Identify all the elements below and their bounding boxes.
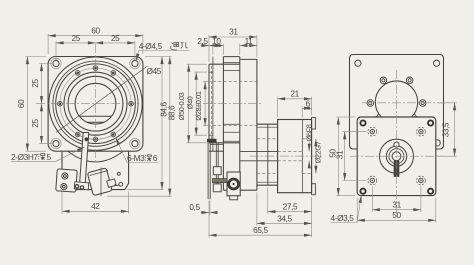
dim 60 left line: [26, 57, 28, 152]
svg-text:21: 21: [290, 89, 299, 99]
shaft ring: [386, 146, 406, 166]
sensor bracket edge-on bar: [208, 143, 210, 199]
dim 88.6 line: [169, 57, 171, 197]
adapter lip bottom: [257, 181, 278, 183]
motor plate: [357, 117, 436, 196]
spigot edge top: [209, 71, 213, 73]
dim 31 left extensions: [343, 132, 367, 181]
svg-text:Ø6F8: Ø6F8: [305, 124, 314, 141]
dim 50 bottom line: [357, 219, 436, 221]
sensor pcb bar hatched: [213, 179, 228, 183]
dim 50 bottom extensions: [357, 198, 436, 223]
gearbox flange plate rear: [350, 55, 444, 150]
dim 50 left extensions: [336, 117, 355, 196]
svg-text:88,6: 88,6: [166, 105, 176, 120]
svg-text:34,5: 34,5: [277, 213, 292, 223]
motor rear boss top: [312, 118, 316, 130]
body internal line a: [223, 61, 239, 63]
svg-text:31: 31: [229, 26, 238, 36]
hidden bore d28 top: [213, 81, 257, 83]
motor axis centerline: [250, 155, 322, 157]
adapter lip top: [257, 126, 278, 128]
dim d6F8 line: [308, 142, 310, 152]
hidden pilot adapter top: [257, 138, 278, 140]
dome screw ring upper-right: [406, 77, 413, 84]
dim 25 25 top extensions: [56, 41, 135, 60]
keyway slot: [394, 161, 399, 177]
leader 6-M3: [116, 138, 159, 163]
sensor connector stub: [107, 179, 116, 187]
dim 84.6 extensions: [127, 57, 172, 190]
adapter top edge: [257, 123, 278, 125]
circle d40: [64, 72, 127, 135]
corner hole top-left: [51, 58, 140, 149]
svg-text:2,5: 2,5: [197, 36, 208, 46]
wire end ring: [119, 182, 123, 186]
flange hole top-right: [434, 60, 440, 66]
lower housing left side wall: [62, 151, 66, 189]
dim 2,5 arrows outside: [201, 45, 209, 47]
svg-text:25: 25: [71, 33, 80, 43]
bearing box low: [223, 140, 239, 142]
svg-text:25: 25: [111, 33, 120, 43]
dim 25 top left line: [56, 42, 96, 44]
plate corner hole br: [428, 189, 433, 194]
dim 25 top right line: [96, 42, 135, 44]
dim 11 extension: [239, 44, 241, 55]
dim 25 left lower line: [41, 104, 43, 144]
vane section black cap: [207, 139, 217, 143]
spigot edge bottom: [209, 134, 213, 136]
dim 11 line: [240, 45, 257, 47]
housing casting sag arc: [68, 151, 123, 162]
flange hole top-left: [355, 60, 361, 66]
dim 42 line: [62, 210, 129, 212]
body bottom edge: [223, 189, 257, 191]
sensor bracket plate: [56, 169, 77, 192]
gear dome: [375, 81, 417, 117]
svg-text:50: 50: [392, 210, 401, 220]
dowel pin hole top: [93, 66, 98, 71]
flange lower inner line: [210, 144, 223, 146]
corner hole bottom-right: [132, 141, 138, 147]
dim 0,5 extensions: [208, 201, 211, 216]
dim d50 line: [188, 64, 190, 143]
cross screw bl: [368, 176, 377, 185]
lower housing right side wall: [125, 151, 129, 189]
svg-text:27,5: 27,5: [283, 202, 298, 212]
dim 34,5 extension: [257, 192, 312, 237]
bore lower chord: [87, 121, 104, 123]
hidden pilot bore verticals: [301, 139, 303, 174]
pin above shaft: [394, 142, 399, 147]
flange front face: [212, 57, 214, 152]
sensor fork lower block: [213, 184, 221, 192]
sensor vane arm: [80, 133, 89, 184]
lower housing bottom edge: [66, 189, 125, 191]
dome screw ring right: [419, 100, 426, 107]
sensor wire: [115, 184, 119, 187]
dim 25 left upper line: [41, 64, 43, 104]
sensor fork upper block: [213, 167, 221, 175]
dim 6 extension: [301, 106, 303, 117]
dim 2,5 extensions: [209, 35, 213, 62]
dim 10 extension: [222, 44, 224, 55]
svg-text:6-M3: 6-M3: [127, 153, 145, 163]
dim 33,5 extensions: [437, 103, 457, 156]
dim 31 bottom extensions: [372, 187, 421, 213]
motor shaft top edge: [240, 150, 278, 152]
dome screw ring upper-left: [380, 77, 387, 84]
small housing hole right: [117, 172, 120, 175]
svg-text:4-Ø3,5: 4-Ø3,5: [331, 213, 355, 223]
label 2-d3H7 depth 5: [11, 152, 52, 162]
svg-text:33,5: 33,5: [440, 122, 450, 137]
outer circle d59: [49, 57, 142, 150]
shaft boss d22: [380, 139, 414, 173]
svg-text:4-Ø4,5: 4-Ø4,5: [139, 41, 163, 51]
hidden pilot bore top: [302, 138, 311, 140]
dim 25 left extensions: [39, 64, 52, 144]
svg-text:2-Ø3H7: 2-Ø3H7: [11, 152, 38, 162]
corner hole top-right: [132, 60, 138, 66]
bearing box mid: [223, 131, 239, 133]
label 6-M3 depth 6: [127, 153, 158, 163]
vane arm pivot dot: [85, 137, 89, 141]
dim 50 left line: [337, 117, 339, 196]
dim 42 extensions: [62, 192, 129, 214]
rear view dim texts: [328, 122, 451, 220]
dim 34,5 line: [257, 222, 312, 224]
circle d50.6: [56, 64, 136, 144]
dim 6 line: [302, 107, 311, 109]
dowel pin hole bottom: [93, 137, 98, 142]
sensor body section: [227, 172, 240, 196]
body mid wall: [239, 57, 241, 191]
shaft ring inner: [389, 149, 404, 164]
svg-text:25: 25: [30, 119, 40, 128]
bracket small screw b: [80, 186, 83, 189]
svg-text:11: 11: [245, 36, 254, 46]
label 4-d3,5: [331, 213, 355, 223]
svg-text:Ø45: Ø45: [147, 66, 162, 76]
circle d54: [53, 61, 138, 146]
dim 21 line: [278, 98, 312, 100]
bolt circle d45: [60, 68, 131, 139]
hidden shaft in motor bottom: [278, 160, 303, 162]
bracket arm bar: [74, 182, 88, 190]
leader 4-d3,5: [331, 195, 362, 222]
sensor body: [87, 168, 112, 196]
svg-text:0,5: 0,5: [189, 202, 200, 212]
motor outline: [278, 120, 312, 193]
bracket screw lower: [61, 184, 67, 190]
dim d40 line: [195, 72, 197, 135]
svg-text:42: 42: [91, 201, 100, 211]
center lines front view: [36, 44, 141, 163]
section axis centerline: [203, 103, 263, 105]
dim d50 extensions: [187, 64, 208, 143]
dim 65,5 line: [209, 234, 312, 236]
svg-text:Ø22G7: Ø22G7: [314, 141, 323, 163]
shaft d6: [392, 152, 401, 161]
body rear face: [256, 59, 258, 190]
flange bottom edge: [209, 150, 223, 152]
M3 screw holes on bolt circle: [58, 66, 134, 142]
cross screw tr: [417, 127, 426, 136]
flange hole bottom-right partially visible: [434, 140, 440, 146]
svg-text:25: 25: [30, 79, 40, 88]
body internal line b: [223, 69, 239, 71]
svg-text:31: 31: [392, 200, 401, 210]
dim d22G7 line: [315, 139, 317, 174]
dim d28 extensions: [203, 82, 211, 126]
motor internal joint line: [301, 120, 303, 193]
dim 60 left extensions: [25, 57, 46, 152]
sensor screw donut: [229, 179, 239, 189]
dome screw ring left: [367, 100, 374, 107]
plate corner hole tl: [360, 120, 365, 125]
leader 4-d4.5: [136, 51, 189, 62]
dim 33,5 line: [454, 103, 456, 156]
vane edge-on lines: [216, 142, 218, 184]
cross screw br: [417, 176, 426, 185]
hidden pilot bore bottom: [302, 172, 311, 174]
plate corner hole bl: [360, 189, 365, 194]
motor shaft bottom edge: [240, 160, 278, 162]
sensor foot: [230, 196, 238, 200]
dim texts front view: [16, 26, 176, 212]
output disc step line hidden: [211, 66, 213, 141]
concentric circles of front view: [49, 57, 142, 150]
svg-text:65,5: 65,5: [253, 225, 268, 235]
hidden pilot adapter bottom: [257, 172, 278, 174]
leader 2-d3H7: [11, 147, 85, 161]
disc bottom edge: [209, 142, 240, 144]
bearing box top: [223, 123, 239, 125]
dim d28 line: [204, 82, 206, 126]
dim 84.6 line: [161, 57, 163, 190]
dim 60 top extensions: [48, 34, 143, 54]
middle view dim texts: [189, 26, 310, 235]
dim 27,5 extension: [267, 187, 269, 214]
label d45: [147, 66, 162, 76]
adapter joint face: [267, 124, 269, 185]
dim 88.6 extension bottom: [107, 195, 172, 197]
dim 31 bottom line: [372, 209, 421, 211]
svg-text:60: 60: [91, 26, 100, 36]
bore flat chord: [80, 115, 112, 117]
corner hole bottom-left: [53, 141, 59, 147]
dim 31 left line: [344, 132, 346, 181]
hidden shaft in motor top: [278, 150, 303, 152]
motor rear boss bottom: [312, 184, 316, 195]
top profile disc: [209, 63, 240, 65]
output disc face: [208, 64, 210, 143]
dim 27,5 line: [268, 211, 312, 213]
svg-text:10: 10: [212, 36, 221, 46]
flange-body joint wall: [222, 57, 224, 191]
rear view centerlines: [350, 70, 446, 215]
top profile boss: [223, 56, 239, 58]
svg-text:31: 31: [334, 150, 344, 159]
plate corner hole tr: [428, 120, 433, 125]
hidden bore d28 bottom: [213, 125, 257, 127]
cross screw tl: [368, 127, 377, 136]
dim 31 line: [209, 36, 257, 38]
dim d40 extensions: [194, 72, 207, 135]
bore circle d26: [75, 83, 116, 124]
svg-text:Ø28±0.01: Ø28±0.01: [194, 91, 203, 120]
flange square outline: [48, 57, 143, 152]
adapter bottom edge: [257, 184, 278, 186]
dim 31 extension right: [256, 35, 258, 58]
svg-text:60: 60: [16, 99, 26, 108]
circle d35: [68, 76, 123, 131]
dim 21 extensions: [278, 97, 312, 118]
dim 60 top line: [48, 35, 143, 37]
dim 10 line: [209, 45, 223, 47]
sensor body inner edge: [90, 168, 109, 197]
dim 0,5 arrows outside: [201, 212, 209, 214]
top profile rear: [240, 58, 257, 60]
bracket small screw a: [75, 185, 78, 188]
diameter leader diagonal line: [56, 66, 148, 133]
bracket screw upper: [62, 173, 68, 179]
label 4-d4,5 through hole: [139, 41, 163, 51]
